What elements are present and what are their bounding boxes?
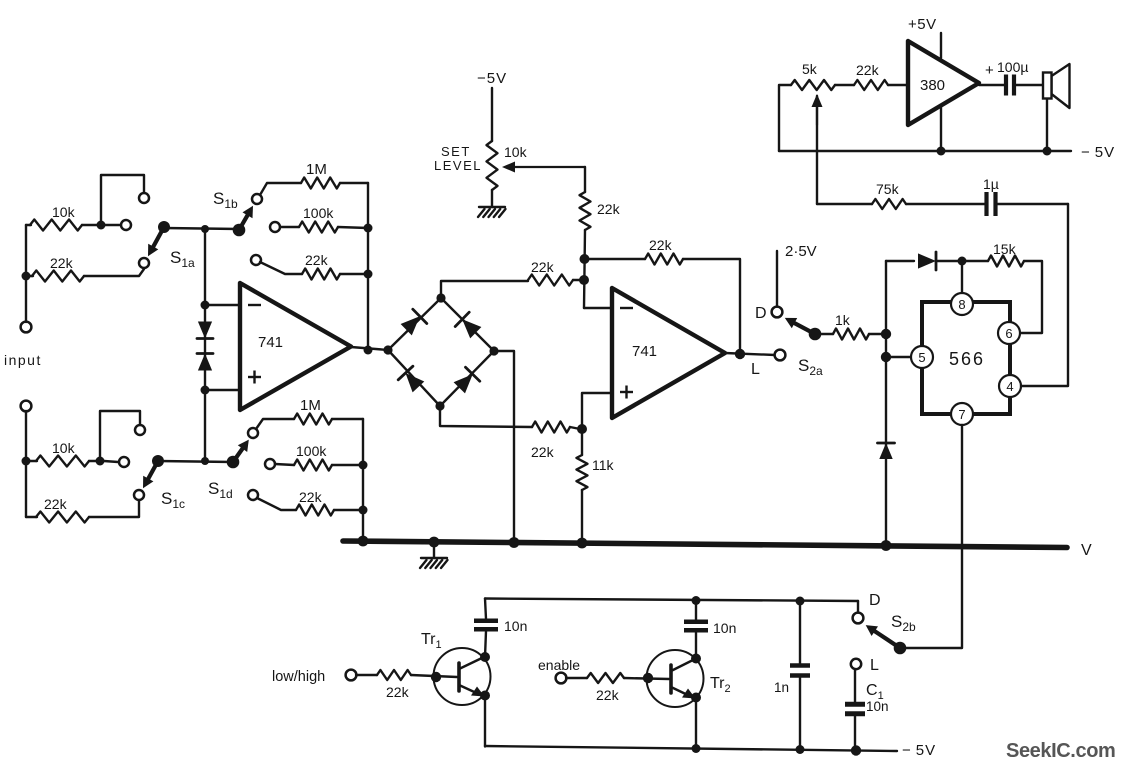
junction 1k on column xyxy=(881,329,891,339)
svg-text:1k: 1k xyxy=(835,312,851,328)
ground set-level stub xyxy=(491,190,493,207)
node 10k ch2 xyxy=(96,457,105,466)
svg-text:low/high: low/high xyxy=(272,669,325,685)
svg-text:22k: 22k xyxy=(649,237,673,253)
svg-text:5: 5 xyxy=(918,350,925,365)
junction pin5 on column xyxy=(881,352,891,362)
input terminal ch2 xyxy=(21,401,32,412)
resistor 1M ch1 xyxy=(301,178,340,189)
svg-text:D: D xyxy=(869,592,881,609)
svg-text:+: + xyxy=(985,62,994,79)
svg-text:22k: 22k xyxy=(44,496,68,512)
junction to inverting input line xyxy=(201,225,209,233)
junction 1n on bottom rail xyxy=(796,745,805,754)
wire plus input U1 xyxy=(205,389,240,391)
capacitor 10n Tr2 top lead xyxy=(695,600,697,620)
junction 11k on bus xyxy=(577,538,588,549)
wire 22k lead ch2 xyxy=(257,498,296,510)
svg-text:1µ: 1µ xyxy=(983,176,999,192)
wire pole to 1k xyxy=(818,333,833,335)
svg-text:22k: 22k xyxy=(386,684,410,700)
junction emitter Tr2 xyxy=(691,693,701,703)
switch S2a pole xyxy=(809,328,822,341)
wire 22k column down xyxy=(584,230,585,308)
bridge diode T-R xyxy=(462,319,481,338)
wire 1M to vertical ch2 xyxy=(332,418,363,420)
junction 100k ch1 xyxy=(364,224,373,233)
ground set-level xyxy=(478,207,506,217)
wire C1 to rail xyxy=(854,713,856,750)
junction base Tr2 xyxy=(643,673,653,683)
wire L to C1 xyxy=(854,669,856,705)
svg-text:22k: 22k xyxy=(856,62,880,78)
wire enable to 22k xyxy=(566,677,587,679)
junction emitter Tr1 xyxy=(480,691,490,701)
svg-text:7: 7 xyxy=(958,407,965,422)
wire 2.5V to D terminal xyxy=(776,251,778,307)
svg-text:11k: 11k xyxy=(592,457,615,473)
bottom rail bottom block xyxy=(485,746,897,751)
wire pin7 down to S2b xyxy=(900,425,962,648)
svg-text:4: 4 xyxy=(1006,379,1013,394)
wire 100k lead ch2 xyxy=(275,464,294,465)
transistor Tr1 collector xyxy=(459,657,484,669)
svg-text:22k: 22k xyxy=(299,489,323,505)
junction 10n Tr2 on rail xyxy=(692,596,701,605)
junction ground on bus xyxy=(429,537,440,548)
junction column on bus xyxy=(881,540,892,551)
wire 5k left to -5V rail xyxy=(779,85,791,151)
wire input vertical ch2 xyxy=(25,411,27,517)
switch S1c lever xyxy=(148,461,158,479)
resistor 22k amp input xyxy=(854,80,888,90)
svg-text:10k: 10k xyxy=(52,204,76,220)
throw terminal 100k ch2 xyxy=(265,459,275,469)
resistor 22k vertical xyxy=(580,192,591,230)
bridge side B-R xyxy=(440,351,494,406)
svg-text:15k: 15k xyxy=(993,241,1017,257)
wire 22k to vertical ch2 xyxy=(334,509,363,511)
svg-text:L: L xyxy=(751,361,760,378)
wire bracket ch2 xyxy=(100,411,140,459)
svg-text:100k: 100k xyxy=(303,205,334,221)
wire diode to 15k xyxy=(936,260,988,262)
junction U1 output / feedback xyxy=(364,346,373,355)
wire 1u to pin4 column xyxy=(996,203,1068,205)
wire 1M to vertical xyxy=(340,182,368,184)
wire pin4 to 1u column xyxy=(1021,204,1068,386)
svg-text:22k: 22k xyxy=(531,259,555,275)
capacitor 1n top lead xyxy=(799,601,801,664)
wire speaker to rail xyxy=(1046,99,1048,152)
wire U2 output xyxy=(725,353,775,355)
junction plus input U1 xyxy=(201,386,210,395)
wire -5V to pot xyxy=(491,88,493,141)
wire 100k lead ch1 xyxy=(280,226,299,228)
switch S1a pole xyxy=(158,221,170,233)
junction emitter Tr2 on rail xyxy=(692,744,701,753)
junction collector Tr1 xyxy=(480,652,490,662)
bridge side L-T xyxy=(388,298,441,350)
throw terminal 22k ch1 xyxy=(139,258,149,268)
wire 22k lead ch1 xyxy=(260,262,302,274)
svg-text:10k: 10k xyxy=(504,144,528,160)
wire bracket ch1 xyxy=(101,175,144,223)
svg-text:100k: 100k xyxy=(296,443,327,459)
wire feedback to 22k xyxy=(585,258,645,260)
svg-text:+5V: +5V xyxy=(908,16,937,33)
wire low/high to 22k xyxy=(356,674,377,676)
pin 5 xyxy=(911,346,933,368)
svg-text:D: D xyxy=(755,305,767,322)
svg-text:100µ: 100µ xyxy=(997,59,1028,75)
transistor Tr1 emitter xyxy=(459,685,485,697)
pin 7 xyxy=(951,403,973,425)
wire 10k lead ch2 xyxy=(26,460,37,462)
svg-text:22k: 22k xyxy=(596,687,620,703)
switch S1d lever xyxy=(233,449,243,462)
junction C1 on bottom rail xyxy=(851,745,861,755)
svg-text:V: V xyxy=(1081,542,1092,559)
wire 11k top lead xyxy=(581,429,583,455)
wire bridge bottom to 22k xyxy=(440,406,532,427)
transistor Tr2 body xyxy=(647,650,704,707)
resistor 1k xyxy=(833,329,869,340)
junction 1n on top rail xyxy=(796,597,805,606)
op-amp U1 741 xyxy=(240,283,351,410)
capacitor C1 10n xyxy=(845,704,865,714)
capacitor 1n xyxy=(790,666,810,676)
capacitor 10n Tr1 top lead xyxy=(485,599,486,620)
svg-text:8: 8 xyxy=(958,297,965,312)
junction bias on bus xyxy=(358,536,369,547)
bridge side T-R xyxy=(441,298,494,351)
bridge diode L-T xyxy=(401,316,420,335)
wire 100k to vertical xyxy=(338,227,368,228)
wire 22k to minus node U2 xyxy=(573,279,584,281)
throw terminal 22k bias ch2 xyxy=(248,490,258,500)
wire to throw circle 10k ch2 xyxy=(104,461,118,462)
resistor 22k ch1 xyxy=(32,271,84,282)
wire 22k to plus node U2 xyxy=(570,427,580,429)
op-amp U2 741 xyxy=(612,288,725,418)
capacitor 1u xyxy=(987,192,996,216)
svg-text:L: L xyxy=(870,657,879,674)
wire wiper to 75k xyxy=(817,203,872,205)
wire 1k to column xyxy=(869,333,886,335)
wire 11k to bus xyxy=(581,490,583,542)
junction to plus input column xyxy=(201,457,209,465)
svg-text:22k: 22k xyxy=(531,444,555,460)
svg-text:10n: 10n xyxy=(713,620,736,636)
wire 22k to S1c throw xyxy=(89,501,139,517)
junction pin8 top xyxy=(958,257,967,266)
pot 5k wiper arrow xyxy=(816,107,818,125)
bridge diode B-R xyxy=(454,374,473,393)
terminal L output xyxy=(775,350,786,361)
wire bridge top to 22k xyxy=(441,281,528,298)
junction base Tr1 xyxy=(431,672,441,682)
svg-text:−5V: −5V xyxy=(477,70,507,87)
pin 4 xyxy=(999,375,1021,397)
wire minus input U1 xyxy=(205,304,240,306)
capacitor 100u xyxy=(1006,75,1014,96)
diode D3 (to pin 8) xyxy=(918,253,936,268)
top rail bottom block xyxy=(485,599,858,602)
svg-text:− 5V: − 5V xyxy=(1081,144,1115,161)
resistor 10k ch2 xyxy=(36,456,89,467)
node 10k ch1 xyxy=(97,221,106,230)
switch S1b lever xyxy=(239,215,248,230)
wire S1d to 1M xyxy=(256,419,294,429)
switch S1b pole xyxy=(233,224,246,237)
junction 380 on rail xyxy=(937,147,946,156)
svg-text:10n: 10n xyxy=(866,699,889,714)
wire emitter Tr2 to rail xyxy=(695,698,697,749)
input terminal ch1 xyxy=(21,322,32,333)
wire 22k lead ch1 left xyxy=(26,275,33,277)
svg-text:enable: enable xyxy=(538,657,580,673)
wire wiper down to 75k row xyxy=(816,96,818,204)
throw terminal 10k ch2 xyxy=(119,457,129,467)
pot wiper arrow xyxy=(515,166,585,168)
resistor 22k Tr1 base xyxy=(377,670,411,680)
junction 22k ch1 xyxy=(364,270,373,279)
wire control column x886 xyxy=(885,261,887,543)
-5V rail amp xyxy=(779,150,1071,152)
resistor 11k xyxy=(577,455,588,490)
wire minus input U2 xyxy=(584,307,612,309)
wire 1n to rail xyxy=(799,677,801,750)
wire S1b to 1M xyxy=(260,183,301,195)
wire emitter Tr1 to rail xyxy=(484,696,486,747)
svg-text:− 5V: − 5V xyxy=(902,742,936,759)
bridge node bottom xyxy=(435,401,444,410)
terminal L s2b xyxy=(851,659,861,669)
wire 10k to node ch2 xyxy=(89,460,98,462)
resistor 22k bridge-bottom xyxy=(532,422,570,433)
svg-text:6: 6 xyxy=(1005,326,1012,341)
switch S2a lever xyxy=(795,323,816,334)
wire 10k lead ch1 xyxy=(26,224,31,226)
diode D4 (column to bus) xyxy=(879,443,892,459)
svg-text:10n: 10n xyxy=(504,618,527,634)
IC U3 566 box xyxy=(922,302,1010,414)
clamp diode D1 (cathode down) xyxy=(198,322,212,339)
junction 10k ch2 xyxy=(22,457,31,466)
svg-text:2·5V: 2·5V xyxy=(785,243,817,260)
wire inverting input column xyxy=(204,229,206,461)
svg-text:741: 741 xyxy=(258,334,283,351)
wire 10n to collector Tr2 xyxy=(695,632,697,659)
svg-text:SET: SET xyxy=(441,144,471,159)
transistor Tr1 base bar xyxy=(457,663,461,691)
pin 6 xyxy=(998,322,1020,344)
switch S2b lever xyxy=(875,631,900,648)
terminal enable xyxy=(556,673,567,684)
svg-text:741: 741 xyxy=(632,343,657,360)
svg-text:10k: 10k xyxy=(52,440,76,456)
junction plus node U2 xyxy=(577,424,587,434)
svg-text:566: 566 xyxy=(949,349,985,369)
switch S1d pole xyxy=(227,456,240,469)
throw terminal bracket ch1 xyxy=(139,193,149,203)
resistor 15k xyxy=(988,256,1024,267)
resistor 22k feedback U2 xyxy=(645,254,683,265)
transistor Tr2 emitter xyxy=(671,687,696,699)
wire plus input U2 xyxy=(582,393,612,427)
throw terminal 100k ch1 xyxy=(270,222,280,232)
wire +5V to amp xyxy=(940,33,942,58)
throw terminal 10k ch1 xyxy=(121,220,131,230)
terminal low/high xyxy=(346,670,357,681)
resistor 22k ch2 xyxy=(36,512,89,523)
junction 22k ch2 xyxy=(359,506,368,515)
svg-text:input: input xyxy=(4,352,42,368)
node 22k/10k ch1 xyxy=(22,272,31,281)
potentiometer 10k SET LEVEL xyxy=(487,141,498,190)
bridge diode B-L xyxy=(406,373,425,392)
bus V xyxy=(343,541,1067,548)
wire 100k to vertical ch2 xyxy=(332,464,363,466)
svg-text:75k: 75k xyxy=(876,181,900,197)
capacitor 10n Tr1 xyxy=(474,621,498,630)
svg-text:380: 380 xyxy=(920,77,945,94)
junction 100k ch2 xyxy=(359,461,368,470)
ground bus xyxy=(420,558,448,568)
bridge node left xyxy=(383,345,392,354)
wire feedback vertical ch1 xyxy=(367,183,369,350)
wire S1c to S1d xyxy=(158,461,233,462)
resistor 10k ch1 xyxy=(30,220,82,231)
junction bridge-right on bus xyxy=(509,537,520,548)
switch S1d throw terminal xyxy=(248,428,258,438)
wire 22k to 380 xyxy=(888,84,908,86)
svg-text:SeekIC.com: SeekIC.com xyxy=(1006,740,1115,762)
transistor Tr1 body xyxy=(434,648,491,705)
wire 5k to 22k amp xyxy=(835,84,854,86)
svg-text:1M: 1M xyxy=(300,397,321,414)
junction feedback U2 xyxy=(580,254,590,264)
svg-text:22k: 22k xyxy=(305,252,329,268)
svg-text:LEVEL: LEVEL xyxy=(434,158,482,173)
amplifier U4 380 xyxy=(908,41,979,125)
wire 75k to 1u xyxy=(906,203,986,205)
resistor 22k bridge-top xyxy=(528,275,573,286)
speaker LS1 xyxy=(1043,64,1070,108)
wire wiper to 22k column xyxy=(584,167,586,192)
wire S1a to S1b xyxy=(164,228,239,229)
junction collector Tr2 xyxy=(691,654,701,664)
clamp diode D2 (cathode up) xyxy=(198,354,212,371)
terminal D s2a xyxy=(772,307,783,318)
terminal D s2b xyxy=(853,613,864,624)
wire 22k lead ch2 left xyxy=(26,516,37,518)
svg-text:1n: 1n xyxy=(774,680,789,695)
transistor Tr2 base bar xyxy=(669,665,673,693)
resistor 75k xyxy=(872,199,906,209)
wire cap to speaker xyxy=(1015,84,1044,86)
junction speaker on rail xyxy=(1043,147,1052,156)
switch S1a lever xyxy=(153,227,164,247)
throw terminal 22k feedback ch1 xyxy=(251,255,261,265)
resistor 100k ch2 xyxy=(294,460,332,471)
switch S2b pole xyxy=(894,642,907,655)
junction minus input U1 xyxy=(201,301,210,310)
resistor 100k ch1 xyxy=(299,222,338,233)
wire 22k to vertical xyxy=(340,273,368,275)
capacitor 10n Tr2 xyxy=(684,622,708,631)
wire 10k to node xyxy=(82,224,99,226)
svg-text:1M: 1M xyxy=(306,161,327,178)
resistor 1M ch2 xyxy=(294,414,332,425)
svg-text:22k: 22k xyxy=(50,255,74,271)
wire 10n to collector Tr1 xyxy=(485,631,486,657)
wire top rail to D terminal xyxy=(857,601,859,613)
pin 8 xyxy=(951,293,973,315)
wire pin5 stub xyxy=(886,356,912,358)
wire 22k to base Tr1 xyxy=(411,675,457,677)
wire feedback to output xyxy=(683,259,740,352)
wire 380 output to cap xyxy=(979,84,1005,86)
bridge side B-L xyxy=(388,350,440,406)
wire 22k to base Tr2 xyxy=(624,678,669,679)
ground bus stub xyxy=(433,543,435,558)
wire top row to diode xyxy=(886,260,914,262)
potentiometer 5k xyxy=(791,80,835,90)
resistor 22k Tr2 base xyxy=(587,673,624,683)
resistor 22k bias ch2 xyxy=(296,505,334,516)
junction U2 output xyxy=(735,349,745,359)
transistor Tr2 collector xyxy=(671,659,695,671)
wire U1 output xyxy=(351,347,388,350)
svg-text:5k: 5k xyxy=(802,61,818,77)
switch S1b throw terminal xyxy=(252,194,262,204)
wire 15k to pin6 xyxy=(1021,261,1042,333)
wire 380 to -5V rail xyxy=(940,106,942,151)
bridge node top xyxy=(436,293,445,302)
switch S1c pole xyxy=(152,455,164,467)
throw terminal 22k ch2 xyxy=(134,490,144,500)
wire input vertical ch1 xyxy=(25,225,27,322)
svg-text:22k: 22k xyxy=(597,201,621,217)
wire to throw circle 10k ch1 xyxy=(105,224,120,226)
wire 22k to S1a throw xyxy=(84,269,144,276)
wire bridge right to bus xyxy=(494,351,514,541)
resistor 22k feedback ch1 xyxy=(302,269,340,280)
throw terminal bracket ch2 xyxy=(135,425,145,435)
junction minus node U2 xyxy=(579,275,589,285)
wire bias vertical ch2 xyxy=(362,419,364,541)
bridge node right xyxy=(489,346,498,355)
wire pin8 stub xyxy=(961,261,963,294)
